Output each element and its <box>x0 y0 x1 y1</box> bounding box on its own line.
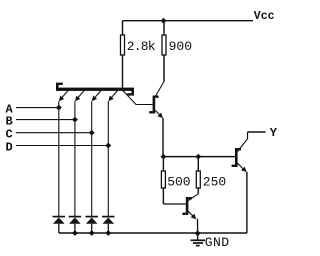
svg-text:D: D <box>6 141 13 155</box>
svg-text:B: B <box>6 115 13 129</box>
transistor Q1 multi-emitter base bar <box>56 83 134 96</box>
node junction at R4 <box>195 154 201 160</box>
wire input A <box>16 107 59 109</box>
transistor Q1 emitter 3 (input C) <box>92 90 101 101</box>
node input D junction <box>105 143 111 149</box>
wire input C vertical <box>91 101 93 216</box>
resistor R1 2.8k <box>121 21 125 88</box>
value label 2.8k <box>127 39 156 54</box>
value label 500 <box>167 174 190 189</box>
node Vcc junction <box>161 18 167 24</box>
diode D3 input C clamp <box>86 217 98 233</box>
ground symbol <box>191 233 205 245</box>
value label 250 <box>203 174 226 189</box>
input label D <box>6 141 13 155</box>
transistor Q3 emitter arrow <box>188 211 196 219</box>
node junction at R3 <box>161 154 167 160</box>
wire input B <box>16 119 75 121</box>
input label B <box>6 115 13 129</box>
resistor R2 900 <box>162 21 166 82</box>
wire Q1 collector to Q2 base <box>123 91 153 105</box>
diode D2 input B clamp <box>69 217 81 233</box>
svg-text:GND: GND <box>205 235 230 250</box>
wire input D vertical <box>107 101 109 216</box>
transistor Q3 <box>182 194 198 215</box>
transistor Q4 <box>232 132 248 167</box>
net label Vcc <box>254 10 275 23</box>
node input A junction <box>56 105 62 111</box>
wire output Y <box>248 131 266 133</box>
wire Q2 emitter down <box>162 118 164 157</box>
wire Vcc rail <box>123 20 254 22</box>
input label C <box>6 128 13 142</box>
transistor Q1 emitter 1 (input A) <box>59 90 68 101</box>
node ground junction <box>195 230 201 236</box>
svg-text:250: 250 <box>203 174 226 189</box>
svg-text:Vcc: Vcc <box>254 10 275 23</box>
wire Q3 emitter to ground <box>197 219 199 233</box>
transistor Q4 emitter arrow <box>238 163 247 172</box>
wire input B vertical <box>74 101 76 216</box>
value label 900 <box>169 39 192 54</box>
transistor Q1 emitter 4 (input D) <box>108 90 117 101</box>
svg-text:2.8k: 2.8k <box>127 39 156 54</box>
wire phase-splitter node <box>163 156 235 158</box>
diode D4 input D clamp <box>102 217 114 233</box>
node input B junction <box>72 117 78 123</box>
transistor Q2 emitter arrow <box>155 110 163 118</box>
node input C junction <box>89 130 95 136</box>
transistor Q2 <box>149 82 164 114</box>
wire input A vertical <box>58 101 60 216</box>
net label Y <box>270 126 278 140</box>
svg-text:500: 500 <box>167 174 190 189</box>
wire input C <box>16 132 92 134</box>
wire Q4 emitter down <box>246 172 248 233</box>
svg-text:Y: Y <box>270 126 278 140</box>
wire ground rail <box>59 232 247 234</box>
node diode C junction <box>89 230 95 236</box>
node diode D junction <box>105 230 111 236</box>
input label A <box>6 103 14 117</box>
wire input D <box>16 145 108 147</box>
resistor R3 500 <box>161 157 185 204</box>
svg-text:900: 900 <box>169 39 192 54</box>
transistor Q1 emitter 2 (input B) <box>75 90 84 101</box>
node diode B junction <box>72 230 78 236</box>
net label GND <box>205 235 230 250</box>
diode D1 input A clamp <box>53 217 65 233</box>
resistor R4 250 <box>196 157 200 194</box>
